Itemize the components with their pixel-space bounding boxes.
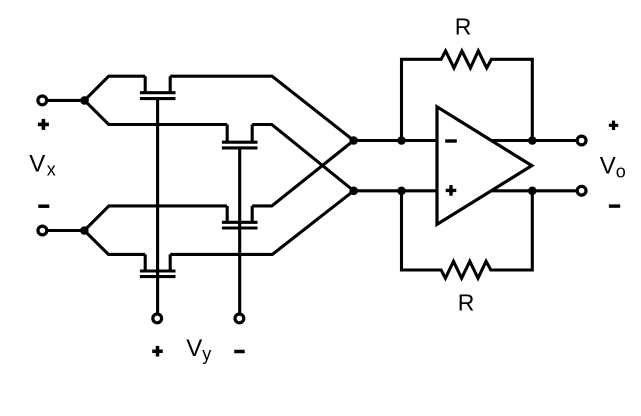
wire rail 4 M4 source to node N2	[170, 191, 354, 255]
transistor M2	[222, 125, 258, 148]
wire gates M2,M3 to Vy- terminal	[238, 148, 241, 313]
terminal Vx-	[38, 226, 47, 235]
node D3	[528, 136, 537, 145]
wire J2 to rail 3 (M3 drain)	[84, 206, 227, 231]
wire J1 to rail 2 (M2 drain)	[85, 100, 228, 124]
node D4	[528, 187, 537, 196]
node N2	[349, 187, 358, 196]
resistor R1 feedback top	[402, 51, 533, 141]
wire Vx- terminal to node J2	[42, 229, 84, 232]
wire rail 1 M1 source to node N1	[170, 76, 354, 140]
wire rail 2 M2 source to node N2	[252, 125, 354, 191]
transistor M1	[140, 76, 176, 98]
minus sign Vx-	[38, 204, 49, 208]
wire J1 to rail 1 (M1 drain)	[85, 76, 146, 100]
minus sign Vo-	[609, 204, 620, 207]
resistor R2 feedback bottom	[402, 191, 533, 278]
svg-text:Vy: Vy	[186, 335, 211, 364]
node N1	[349, 136, 358, 145]
node J2	[80, 226, 89, 235]
terminal Vy+	[153, 314, 162, 323]
op-amp U1	[437, 107, 532, 225]
node D1	[397, 136, 406, 145]
terminal Vo+	[577, 136, 586, 145]
svg-text:R: R	[458, 290, 475, 316]
plus sign Vy+	[152, 346, 163, 357]
transistor M4	[140, 254, 176, 276]
svg-text:R: R	[455, 13, 472, 39]
wire Vx+ terminal to node J1	[42, 99, 84, 102]
plus sign Vo+	[609, 121, 618, 130]
svg-text:Vx: Vx	[29, 150, 56, 179]
wire node N2 to op-amp non-inverting input and output line bottom	[354, 189, 577, 192]
wire node N1 to op-amp inverting input and output line top	[354, 139, 577, 142]
plus sign Vx+	[38, 119, 49, 130]
wire gates M1,M4 to Vy+ terminal	[156, 99, 159, 313]
wire J2 to rail 4 (M4 drain)	[84, 231, 145, 255]
minus sign Vy-	[234, 350, 245, 354]
wire rail 3 M3 source to node N1	[252, 141, 354, 206]
transistor M3	[222, 206, 258, 228]
svg-text:Vo: Vo	[600, 153, 626, 182]
node J1	[80, 96, 89, 105]
terminal Vx+	[38, 96, 47, 105]
terminal Vy-	[235, 314, 244, 323]
terminal Vo-	[577, 186, 586, 195]
node D2	[397, 187, 406, 196]
